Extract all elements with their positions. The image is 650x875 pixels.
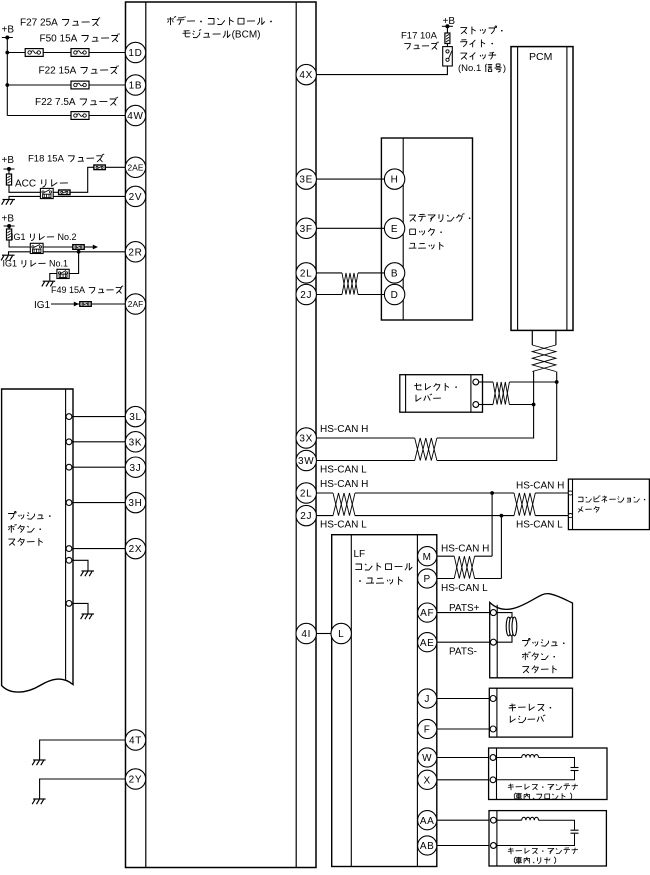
svg-text:2X: 2X [129,544,143,555]
label BCM title line2 [183,29,261,40]
wire relay No.2 to pin 2R [43,251,125,253]
antenna terminal top front [490,755,496,761]
push button start box right [490,594,573,678]
BCM pin 1B [125,75,145,95]
twisted pair select lever [493,382,509,405]
wire pin 4X to stop light switch [316,66,447,75]
label PATS+ [449,603,480,614]
fuse F22 7.5A [71,112,89,120]
LF pin M [418,547,437,566]
steering lock pin D [384,284,404,304]
LF control unit box [332,535,437,867]
arrow IG1 feed [74,302,79,307]
svg-text:F22 7.5A: F22 7.5A [35,97,76,108]
svg-text:3K: 3K [129,437,143,448]
wire P HS-CAN L [437,578,502,580]
BCM pin 4W [125,105,145,125]
wire W to antenna front [437,757,490,759]
terminal circle 3K [66,439,72,445]
wire 3W HS-CAN L [316,460,414,462]
label push button right line1 [522,639,565,647]
label F18 fuse [28,154,104,165]
BCM pin 1D [125,42,145,62]
svg-text:H: H [391,175,399,186]
select lever box [400,375,483,413]
label stop light line4 [458,63,506,74]
label F50 fuse [40,33,120,44]
label stop light line2 [460,40,493,48]
terminal circle gnd1 [66,557,72,563]
svg-text:F22 15A: F22 15A [39,66,77,77]
svg-text:(No.1: (No.1 [458,63,481,74]
wire push button ground 1 [72,560,88,570]
label HS-CAN H MP [441,544,489,555]
svg-text:W: W [422,753,432,764]
wire ACC relay to F18 fuse corner [53,167,94,192]
svg-text:AA: AA [420,816,435,827]
wire PCM CAN right vertical [437,372,557,461]
svg-text:HS-CAN L: HS-CAN L [441,583,488,594]
label F22 fuse [39,65,119,76]
svg-text:IG1: IG1 [11,232,26,242]
svg-text:2L: 2L [300,489,313,500]
label antenna rear line2 [514,857,555,864]
BCM pin 3X right 5 [296,428,316,448]
label antenna rear line1 [508,848,578,855]
twisted pair M/P [454,556,474,578]
ground 2Y [32,799,45,804]
BCM body control module box [126,2,317,868]
label push button start left line3 [8,538,42,546]
svg-text:2AE: 2AE [128,162,144,172]
LF pin W [418,748,437,767]
label select lever line1 [414,383,457,391]
relay IG1 No.1 [57,269,69,278]
wire relay No.1 to ground [50,274,57,281]
label HS-CAN L 3W [320,465,367,476]
+B supply stop light [442,16,455,28]
wire select lever lower to CAN [479,404,534,406]
label keyless receiver line1 [509,704,552,712]
push button terminal PATS- [490,639,496,645]
ground 4T [32,760,45,765]
wire push button to pin 3J [72,466,126,468]
wire IG1 No.2 coil to ground [9,252,31,255]
steering lock pin B [384,263,404,283]
svg-text:4I: 4I [301,629,311,640]
label push button start left line1 [8,512,51,520]
svg-text:2V: 2V [129,192,143,203]
antenna terminal bottom front [490,777,496,783]
wire PCM CAN left vertical [437,372,534,439]
BCM pin 3F right 2 [296,218,316,238]
svg-text:PCM: PCM [529,51,552,63]
svg-text:No.1: No.1 [49,259,68,269]
junction select lever upper / CAN L [555,380,559,384]
svg-text:1D: 1D [128,48,142,59]
wire 4I to L [316,633,331,635]
fuse F18 15A [94,165,105,170]
svg-text:2R: 2R [128,247,142,258]
BCM pin 3E right 1 [296,169,316,189]
fuse vertical ACC feed [6,174,11,185]
LF pin F [418,719,437,738]
fuse F22 15A [71,81,89,89]
terminal circle 3L [66,414,72,420]
relay ACC [40,188,53,198]
wire push button to pin 3H [72,502,126,504]
twisted pair 3X/3W [415,438,437,461]
svg-text:F49 15A: F49 15A [51,285,85,295]
fuse ACC output [59,190,70,195]
svg-text:IG1: IG1 [3,259,18,269]
receiver terminal F [490,726,496,732]
label combination meter line1 [578,496,645,503]
steering lock pin E [384,218,404,238]
label keyless receiver line2 [510,715,545,723]
label F17 line1 [401,31,438,42]
svg-text:4T: 4T [129,736,142,747]
BCM pin 2L right 3 [296,263,316,283]
antenna LC loop front [496,755,579,780]
steering lock pin H [384,169,404,189]
BCM pin 3H [125,492,145,512]
svg-text:J: J [424,694,430,705]
svg-text:3X: 3X [299,434,313,445]
junction 2R line [77,250,81,254]
svg-text:4X: 4X [299,70,313,81]
wire junction down to P [500,516,502,579]
svg-text:3W: 3W [298,456,314,467]
BCM pin 3J [125,457,145,477]
svg-text:HS-CAN H: HS-CAN H [320,479,368,490]
svg-text:2J: 2J [300,290,312,301]
select lever terminal upper [473,379,479,385]
svg-text:P: P [424,574,431,585]
BCM pin 2L right 7 [296,483,316,503]
wire +B to ACC fuse [8,169,10,174]
label push button right line2 [522,652,555,661]
svg-text:ACC: ACC [15,179,36,190]
svg-text:PATS+: PATS+ [449,603,480,614]
label steering lock line3 [409,242,444,250]
svg-text:3J: 3J [130,463,142,474]
svg-text:1B: 1B [129,81,143,92]
label select lever line2 [416,394,441,402]
svg-text:X: X [424,775,431,786]
svg-text:3E: 3E [299,175,313,186]
wire to pin 4W [7,115,125,117]
svg-text:D: D [391,290,399,301]
push button terminal PATS+ [490,610,496,616]
label stop light line3 [460,52,496,60]
immobilizer antenna coil [506,617,517,636]
BCM pin 2Y [125,769,145,789]
twisted pair meter [514,493,535,516]
fuse F27 25A [25,49,43,57]
+B supply IG1 [2,214,15,229]
wire J to receiver [437,698,490,700]
svg-text:2Y: 2Y [129,775,143,786]
twisted pair PCM CAN [532,345,556,372]
LF pin AE [418,633,437,652]
label F49 fuse [51,285,123,295]
wire push button ground 2 [72,603,88,613]
select lever terminal lower [473,402,479,408]
label LF line3 [359,577,403,585]
wire to pin 1B [7,84,125,86]
junction CAN H to LF [490,491,494,495]
ground push button 1 [81,571,94,576]
relay IG1 No.2 [30,243,43,253]
wire junction down to M [491,493,493,556]
svg-text:E: E [391,224,398,235]
steering lock unit box [381,138,472,320]
junction on +B feed row 1B [5,83,9,87]
wire junction down to relay No.1 [69,252,78,274]
keyless receiver box [489,688,572,737]
wire 3X HS-CAN H [316,437,414,439]
wire AE PATS- [437,641,491,643]
label LF line1 [354,549,366,560]
BCM pin 2R [125,242,145,262]
svg-text:+B: +B [2,155,15,166]
meter terminal L [568,514,572,518]
svg-text:F27 25A: F27 25A [20,18,58,29]
BCM pin 2X [125,538,145,558]
ground ACC relay [2,200,15,205]
label HS-CAN H 3X [320,424,368,435]
PCM box [511,47,573,331]
meter terminal H [568,491,572,495]
svg-text:AF: AF [420,608,434,619]
label IG1 relay No.2 [11,232,77,242]
label PCM title [529,51,552,63]
LF pin X [418,770,437,789]
junction CAN L to LF [500,514,504,518]
label HS-CAN L 2J [320,520,367,531]
BCM pin 4I right 9 [296,623,316,643]
LF pin L [331,623,351,643]
combination meter box [568,479,649,529]
fuse F50 15A [71,49,89,57]
LF pin P [418,569,437,588]
svg-text:4W: 4W [127,111,143,122]
label F17 line2 [404,42,438,50]
label HS-CAN L meter [516,520,563,531]
svg-text:LF: LF [354,549,366,560]
twisted pair 2L/2J [333,493,355,516]
svg-text:HS-CAN L: HS-CAN L [516,520,563,531]
wire AF PATS+ [437,612,491,614]
wire AA to antenna rear [437,819,490,821]
label antenna front line1 [508,784,578,791]
wire X to antenna front [437,779,490,781]
svg-text:AE: AE [420,638,435,649]
svg-text:F50 15A: F50 15A [40,34,78,45]
svg-text:HS-CAN H: HS-CAN H [320,424,368,435]
antenna terminal top rear [491,817,497,823]
label push button right line3 [522,666,556,674]
wire 3F to E [316,227,384,229]
label IG1 node [34,300,51,311]
fuse vertical IG1 feed [7,229,12,240]
immobilizer coil wiring [496,613,512,643]
antenna LC loop rear [496,817,578,845]
label PATS- [449,647,477,658]
BCM pin 2AF [125,294,145,314]
terminal circle 2X [66,546,72,552]
twisted pair steering lock [342,273,358,295]
svg-text:HS-CAN H: HS-CAN H [441,544,489,555]
+B supply top-left [2,25,15,40]
svg-text:HS-CAN L: HS-CAN L [320,465,367,476]
label HS-CAN H 2L [320,479,368,490]
svg-text:IG1: IG1 [34,300,51,311]
BCM pin 2AE [125,157,145,177]
wire 2J to D [316,294,384,296]
svg-text:AB: AB [420,841,435,852]
svg-text:M: M [423,552,432,563]
wire F to receiver [437,728,490,730]
wire select lever upper to CAN [479,381,557,383]
wire IG1 to pin 2AF [51,303,125,305]
ground IG1 relay No.1 [42,281,55,286]
arrow IG1 No.2 output [93,245,98,250]
wire 2L to B [316,272,384,274]
wire to pin 1D [7,52,125,54]
svg-text:F18 15A: F18 15A [28,154,65,165]
svg-text:+B: +B [2,25,15,36]
svg-text:No.2: No.2 [58,232,77,242]
svg-text:3H: 3H [128,498,142,509]
BCM pin 2V [125,186,145,206]
wire relay No.2 to arrow [43,246,93,248]
BCM pin 3L [125,406,145,426]
wire push button to pin 3L [72,416,126,418]
+B supply ACC [2,155,15,171]
svg-text:(BCM): (BCM) [232,30,261,41]
wire 3E to H [316,178,384,180]
stop light switch [443,47,453,66]
svg-text:F17 10A: F17 10A [401,31,438,42]
terminal circle 3H [66,500,72,506]
wire ACC relay to pin 2V [53,195,125,197]
wire pin 2Y to ground [40,779,126,799]
wire F18 to pin 2AE [105,166,126,168]
PCM connector stub [532,330,556,345]
svg-text:F: F [424,725,431,736]
wire pin 4T to ground [40,740,126,760]
label steering lock line1 [409,213,470,222]
wire ACC coil to ground [9,196,40,199]
label ACC relay [15,179,68,190]
keyless antenna box front [489,748,607,800]
wire +B vertical feed [6,38,8,116]
LF pin AB [418,836,437,855]
label LF line2 [355,563,412,571]
fuse F17 10A [445,33,450,44]
wire switch to fuse F17 [446,26,448,46]
BCM pin 3W right 6 [296,450,316,470]
svg-text:2AF: 2AF [128,299,144,309]
svg-text:): ) [503,63,506,74]
wire M HS-CAN H [437,555,492,557]
fuse F49 15A [80,302,91,307]
label F27 fuse [20,17,100,28]
wire push button to pin 3K [72,441,126,443]
label IG1 relay No.1 [3,259,69,269]
BCM pin 4X right 0 [296,64,316,84]
wire 2J HS-CAN L to meter [316,515,568,517]
svg-text:PATS-: PATS- [449,647,477,658]
LF pin AF [418,603,437,622]
junction select lever lower / CAN H [532,403,536,407]
label HS-CAN H meter [516,481,564,492]
svg-text:HS-CAN H: HS-CAN H [516,481,564,492]
svg-text:+B: +B [2,214,15,225]
svg-text:2J: 2J [300,511,312,522]
label antenna front line2 [514,793,571,800]
LF pin J [418,689,437,708]
svg-text:L: L [338,629,344,640]
wire fuse to ACC relay [9,185,40,192]
label stop light line1 [460,26,502,34]
label combination meter line2 [578,506,599,512]
terminal circle 3J [66,464,72,470]
svg-text:B: B [391,269,398,280]
wire push button to pin 2X [72,548,126,550]
svg-text:HS-CAN L: HS-CAN L [320,520,367,531]
ground push button 2 [81,614,94,619]
LF pin AA [418,811,437,830]
label F22 7.5A fuse [35,97,118,108]
label steering lock line2 [410,228,442,235]
ground IG1 relay No.2 [1,255,14,260]
wire +B to IG1 fuse [8,226,10,229]
label HS-CAN L MP [441,583,488,594]
label BCM title line1 [167,16,272,25]
fuse IG1 No.2 output [73,245,84,250]
svg-text:2L: 2L [300,269,313,280]
junction on +B feed row 1D [5,51,9,55]
wire 2L HS-CAN H to meter [316,492,568,494]
svg-text:3L: 3L [129,412,142,423]
svg-text:3F: 3F [300,224,313,235]
push button start box left [2,389,73,692]
wire AB to antenna rear [437,845,490,847]
antenna terminal bottom rear [491,843,497,849]
terminal circle gnd2 [66,601,72,607]
label push button start left line2 [8,524,41,533]
keyless antenna box rear [489,811,606,866]
receiver terminal J [490,696,496,702]
wire fuse to IG1 relay No.2 [9,240,30,247]
BCM pin 4T [125,730,145,750]
BCM pin 3K [125,432,145,452]
BCM pin 2J right 4 [296,284,316,304]
BCM pin 2J right 8 [296,505,316,525]
